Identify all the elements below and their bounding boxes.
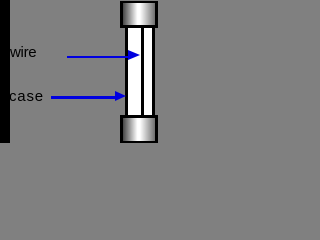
arrow to case : head — [115, 91, 126, 101]
fuse glass body (case) — [125, 28, 155, 116]
label "case" — [9, 89, 44, 104]
fuse bottom metal cap — [120, 115, 159, 143]
arrow to wire : head — [128, 50, 140, 60]
fuse top metal cap — [120, 1, 159, 28]
arrow to case : shaft — [51, 96, 115, 98]
left black margin bar — [0, 0, 10, 143]
fuse wire (filament) — [141, 28, 143, 116]
label "wire" — [10, 45, 36, 60]
arrow to wire : shaft — [67, 56, 129, 58]
